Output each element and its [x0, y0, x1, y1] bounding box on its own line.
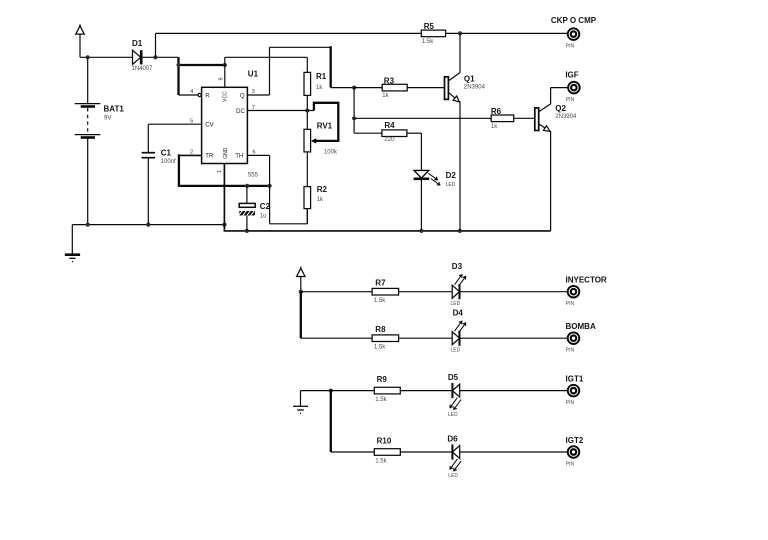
svg-text:C1: C1 [161, 148, 172, 157]
svg-text:TH: TH [235, 154, 243, 160]
svg-text:PIN: PIN [566, 44, 575, 50]
svg-text:1u: 1u [260, 214, 267, 220]
svg-text:CV: CV [205, 122, 213, 128]
svg-text:4: 4 [190, 89, 193, 95]
svg-text:IGF: IGF [565, 70, 578, 79]
svg-text:Q1: Q1 [464, 75, 475, 84]
svg-text:1.5k: 1.5k [375, 458, 387, 464]
svg-text:IGT2: IGT2 [566, 436, 584, 445]
svg-text:220: 220 [384, 137, 395, 143]
svg-text:1.5k: 1.5k [375, 397, 387, 403]
svg-text:IGT1: IGT1 [566, 375, 584, 384]
svg-text:100nf: 100nf [161, 159, 176, 165]
svg-text:9V: 9V [104, 115, 111, 121]
svg-text:PIN: PIN [566, 348, 575, 354]
svg-text:6: 6 [253, 150, 256, 156]
svg-text:TR: TR [205, 154, 214, 160]
svg-text:LED: LED [448, 473, 458, 479]
svg-text:100k: 100k [324, 150, 338, 156]
svg-text:LED: LED [451, 348, 461, 354]
svg-text:2N3904: 2N3904 [464, 84, 486, 90]
svg-text:LED: LED [446, 182, 456, 188]
svg-text:1k: 1k [491, 124, 498, 130]
svg-text:Q: Q [240, 93, 245, 99]
svg-text:Q2: Q2 [555, 104, 566, 113]
svg-text:1.5k: 1.5k [374, 298, 386, 304]
svg-text:R1: R1 [316, 72, 327, 81]
svg-text:BAT1: BAT1 [104, 105, 125, 114]
svg-text:D1: D1 [132, 39, 143, 48]
svg-text:R2: R2 [317, 185, 328, 194]
svg-text:D5: D5 [448, 373, 459, 382]
svg-text:1k: 1k [317, 197, 324, 203]
svg-text:1k: 1k [316, 85, 323, 91]
svg-text:U1: U1 [248, 69, 259, 78]
svg-text:R4: R4 [384, 121, 395, 130]
svg-text:GND: GND [223, 147, 229, 159]
svg-text:R7: R7 [375, 278, 386, 287]
svg-text:CKP O CMP: CKP O CMP [551, 16, 597, 25]
svg-text:1.5k: 1.5k [422, 39, 434, 45]
svg-text:D6: D6 [447, 435, 458, 444]
svg-text:PIN: PIN [566, 461, 575, 467]
svg-text:VCC: VCC [222, 91, 228, 102]
svg-text:BOMBA: BOMBA [566, 322, 596, 331]
svg-text:PIN: PIN [566, 400, 575, 406]
svg-text:LED: LED [451, 301, 461, 307]
svg-text:3: 3 [252, 89, 255, 95]
svg-text:R3: R3 [384, 76, 395, 85]
svg-text:D3: D3 [452, 262, 463, 271]
svg-text:5: 5 [190, 118, 193, 124]
svg-text:1N4007: 1N4007 [132, 66, 154, 72]
svg-text:DC: DC [236, 109, 245, 115]
svg-text:1.5k: 1.5k [374, 344, 386, 350]
svg-text:R10: R10 [377, 436, 392, 445]
svg-text:LED: LED [448, 412, 458, 418]
svg-text:D2: D2 [446, 171, 457, 180]
svg-text:D4: D4 [453, 308, 464, 317]
svg-text:INYECTOR: INYECTOR [566, 275, 607, 284]
svg-text:C2: C2 [260, 202, 271, 211]
svg-text:RV1: RV1 [317, 121, 333, 130]
svg-text:R5: R5 [424, 22, 435, 31]
svg-text:1k: 1k [382, 93, 389, 99]
svg-text:R9: R9 [377, 375, 388, 384]
svg-text:PIN: PIN [566, 301, 575, 307]
svg-text:2N3904: 2N3904 [555, 114, 577, 120]
svg-text:8: 8 [218, 77, 224, 80]
svg-text:555: 555 [248, 172, 259, 178]
svg-text:R: R [205, 93, 210, 99]
svg-text:PIN: PIN [566, 97, 575, 103]
svg-text:R6: R6 [491, 107, 502, 116]
svg-text:R8: R8 [375, 325, 386, 334]
svg-text:1: 1 [217, 170, 223, 173]
